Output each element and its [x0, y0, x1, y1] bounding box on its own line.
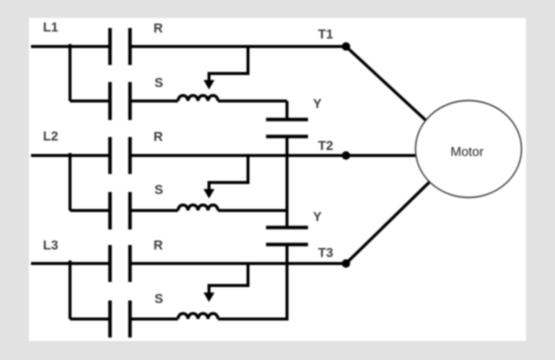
inductor L1a	[178, 96, 218, 102]
wire capacitor bus Y1 to Y2	[286, 138, 289, 226]
wire contact R3 to node T3	[130, 262, 346, 265]
svg-text:R: R	[154, 238, 164, 253]
wire contact S2 to inductor L2a	[130, 209, 178, 212]
arrow branch from R2 row to inductor L2a	[204, 156, 249, 199]
motor M1	[416, 101, 522, 198]
svg-text:S: S	[155, 75, 164, 90]
wire T1 to motor	[346, 47, 426, 121]
contact R1	[110, 28, 130, 65]
wire branch L2 down to S2 row	[70, 153, 110, 211]
wire L2 to contact R2	[31, 154, 110, 157]
wire contact R2 to motor through node T2	[130, 154, 416, 157]
inductor L2a	[178, 205, 218, 211]
svg-text:Y: Y	[313, 96, 322, 111]
arrow branch from R1 row to inductor L1a	[204, 47, 249, 90]
wire branch L1 down to S1 row	[70, 44, 110, 101]
svg-text:Motor: Motor	[451, 144, 485, 159]
svg-text:R: R	[154, 129, 164, 144]
contact S3	[110, 301, 130, 338]
wire contact R1 to node T1	[130, 45, 346, 48]
svg-text:T3: T3	[318, 245, 333, 260]
wire branch L3 down to S3 row	[70, 261, 110, 320]
junction dot T1	[342, 42, 350, 50]
wire contact S1 to inductor L1a	[130, 100, 178, 103]
svg-text:T2: T2	[318, 138, 333, 153]
contact S1	[110, 82, 130, 120]
svg-text:L1: L1	[43, 20, 58, 35]
svg-text:S: S	[155, 182, 164, 197]
svg-text:Y: Y	[313, 209, 322, 224]
junction dot T2	[342, 151, 350, 159]
wire inductor L3a up to node T3	[218, 245, 287, 321]
contact R3	[110, 245, 130, 282]
svg-text:S: S	[155, 291, 164, 306]
svg-text:T1: T1	[318, 27, 333, 42]
capacitor Y2	[266, 228, 308, 245]
svg-text:L2: L2	[43, 129, 58, 144]
contact R2	[110, 137, 130, 174]
capacitor Y1	[266, 120, 308, 137]
svg-text:L3: L3	[43, 238, 58, 253]
svg-text:R: R	[154, 21, 164, 36]
wire T3 to motor	[346, 182, 430, 264]
inductor L3a	[178, 314, 218, 320]
wire L3 to contact R3	[31, 262, 110, 265]
wire inductor L2a to capacitor bus	[218, 209, 287, 212]
wire L1 to contact R1	[31, 45, 110, 48]
wire inductor L1a to capacitor bus	[218, 101, 287, 118]
junction dot T3	[342, 259, 350, 267]
contact S2	[110, 192, 130, 230]
wire contact S3 to inductor L3a	[130, 318, 178, 321]
arrow branch from R3 row to inductor L3a	[204, 264, 249, 303]
